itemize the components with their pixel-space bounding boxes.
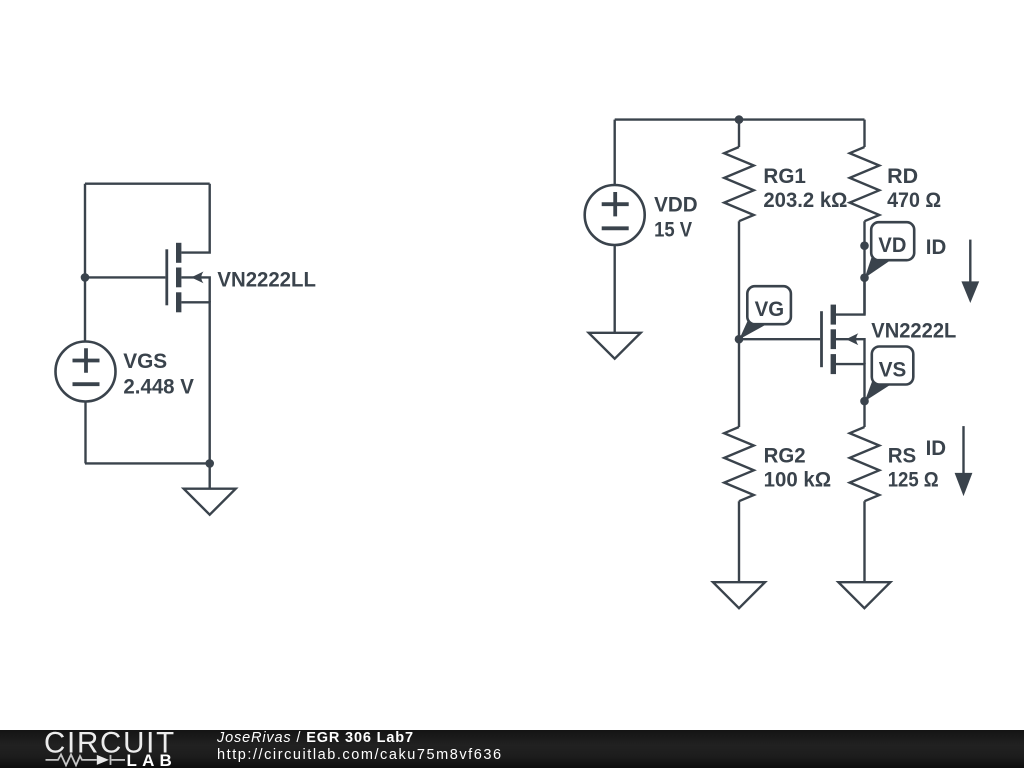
wire: VGS bottom to bottom rail (84, 402, 86, 464)
node: VD upper dot (860, 241, 869, 250)
wire: bottom horizontal rail (85, 462, 210, 464)
node: bottom junction dot (205, 459, 214, 468)
source pin (181, 302, 209, 463)
resistor RS 125 (850, 401, 880, 582)
channel bars (831, 305, 836, 375)
svg-text:ID: ID (926, 236, 947, 259)
node: gate junction dot (81, 273, 90, 282)
node: VS dot (860, 397, 869, 406)
source pin (836, 364, 865, 401)
transistor M1 VN2222LL (NMOS) (167, 184, 210, 464)
svg-text:LAB: LAB (127, 751, 178, 768)
voltage source VGS (56, 342, 116, 402)
svg-text:VDD: VDD (654, 194, 698, 217)
wire: VDD top lead (614, 120, 616, 185)
svg-text:VS: VS (879, 358, 907, 381)
drain pin (836, 278, 865, 315)
current arrow ID (top) (961, 240, 979, 303)
wire: left vertical from gate node to VGS source top (84, 277, 86, 341)
wire: left vertical from top wire to gate node (84, 184, 86, 278)
ground (RG2) (713, 582, 765, 608)
body/source arrow line (181, 277, 209, 302)
svg-text:RD: RD (887, 165, 918, 188)
node flag VG (739, 286, 791, 339)
gate line (165, 249, 168, 305)
ground (left circuit) (184, 463, 236, 514)
ground (VDD) (589, 333, 641, 359)
svg-text:VG: VG (755, 298, 785, 321)
voltage source VDD (585, 185, 645, 245)
wire: VDD bottom lead (614, 245, 616, 333)
CircuitLab logo (0, 730, 210, 768)
wire: top horizontal (drain loop) (85, 182, 210, 184)
transistor M2 VN2222L (NMOS) (822, 278, 865, 401)
svg-text:VN2222L: VN2222L (871, 319, 956, 342)
resistor RG1 203.2k (724, 120, 754, 340)
node: top rail junction dot (735, 115, 744, 124)
ground (RS) (838, 582, 890, 608)
wire: VG horizontal to gate of M2 (739, 338, 820, 340)
wire: top rail (615, 118, 865, 120)
node flag VS (865, 347, 914, 402)
resistor RD 470 (850, 120, 880, 315)
drain pin (181, 184, 209, 253)
footer text (217, 728, 503, 766)
svg-text:VGS: VGS (123, 350, 167, 373)
svg-text:ID: ID (926, 437, 947, 460)
current arrow ID (bottom) (955, 426, 973, 496)
svg-text:RS: RS (888, 445, 917, 468)
svg-text:100 kΩ: 100 kΩ (764, 469, 832, 492)
body/source arrow line (836, 339, 865, 364)
resistor RG2 100k (724, 339, 754, 582)
svg-text:125 Ω: 125 Ω (888, 469, 939, 492)
node: VG dot (735, 335, 744, 344)
svg-text:RG1: RG1 (763, 165, 806, 188)
node: VD lower dot (860, 273, 869, 282)
svg-text:2.448 V: 2.448 V (123, 375, 193, 398)
svg-text:VD: VD (878, 234, 906, 257)
channel bars (176, 243, 181, 312)
svg-text:470 Ω: 470 Ω (887, 189, 941, 212)
svg-text:RG2: RG2 (764, 445, 806, 468)
gate line (820, 311, 823, 367)
wire: gate wire to MOSFET M1 (85, 276, 165, 278)
footer bar (0, 730, 1024, 768)
svg-text:203.2 kΩ: 203.2 kΩ (763, 189, 847, 212)
svg-text:VN2222LL: VN2222LL (217, 269, 316, 292)
svg-text:15 V: 15 V (654, 218, 692, 241)
node flag VD (865, 222, 915, 278)
